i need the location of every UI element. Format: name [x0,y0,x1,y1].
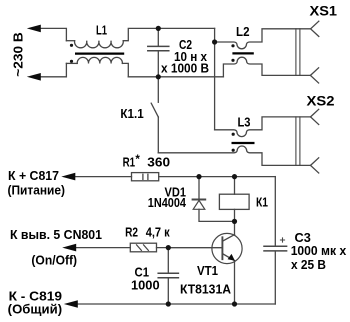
svg-text:х 25 В: х 25 В [291,257,326,272]
svg-text:КТ8131А: КТ8131А [180,282,232,297]
svg-text:R1: R1 [123,155,136,170]
svg-text:4,7 к: 4,7 к [146,225,170,240]
svg-text:R2: R2 [125,225,138,240]
svg-text:К + С817: К + С817 [8,168,59,183]
svg-text:VT1: VT1 [197,263,218,278]
svg-text:(On/Off): (On/Off) [31,252,77,267]
svg-text:1000 мк х: 1000 мк х [291,243,347,258]
svg-text:К1: К1 [256,195,268,210]
svg-text:К выв. 5 CN801: К выв. 5 CN801 [10,227,102,242]
svg-text:1N4004: 1N4004 [148,195,187,210]
svg-text:*: * [135,152,140,166]
svg-text:х 1000 В: х 1000 В [161,61,209,76]
svg-text:1000: 1000 [131,278,160,293]
svg-text:К1.1: К1.1 [120,106,143,121]
svg-text:~230 В: ~230 В [11,32,26,77]
svg-text:XS2: XS2 [307,92,335,108]
svg-text:L2: L2 [236,24,250,39]
svg-text:360: 360 [147,155,170,170]
svg-text:L3: L3 [238,115,251,130]
svg-text:(Питание): (Питание) [8,183,66,198]
svg-text:(Общий): (Общий) [8,301,62,316]
svg-text:XS1: XS1 [310,2,338,18]
svg-text:L1: L1 [96,23,107,38]
